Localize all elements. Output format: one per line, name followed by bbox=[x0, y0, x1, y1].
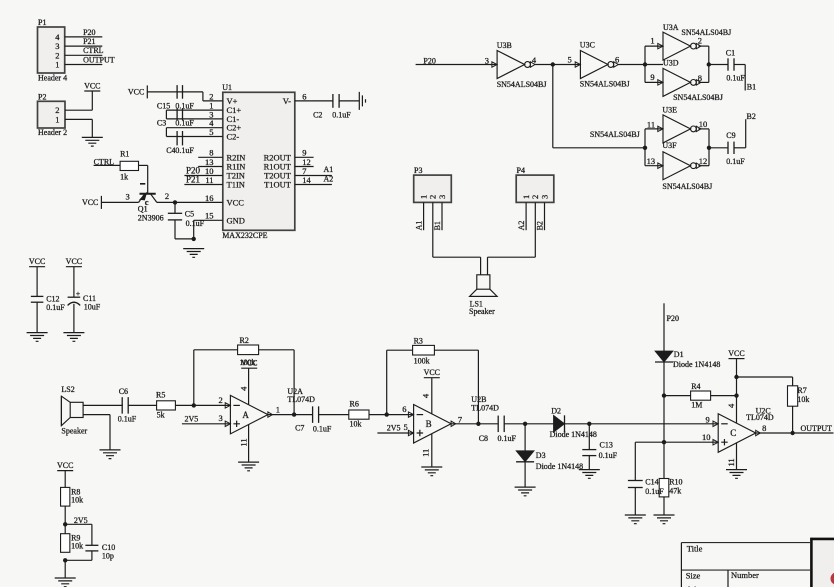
svg-text:6: 6 bbox=[615, 54, 619, 64]
svg-text:D2: D2 bbox=[551, 407, 561, 416]
svg-text:2V5: 2V5 bbox=[387, 424, 401, 433]
svg-text:0.1uF: 0.1uF bbox=[118, 414, 137, 423]
svg-text:B2: B2 bbox=[747, 112, 756, 121]
svg-text:Header 4: Header 4 bbox=[38, 73, 67, 82]
svg-text:SN54ALS04BJ: SN54ALS04BJ bbox=[673, 93, 723, 102]
svg-text:+: + bbox=[76, 289, 80, 298]
svg-text:11: 11 bbox=[726, 458, 736, 466]
svg-text:2: 2 bbox=[219, 395, 223, 405]
svg-text:0.1uF: 0.1uF bbox=[726, 74, 745, 83]
svg-text:10p: 10p bbox=[102, 552, 114, 561]
svg-text:1: 1 bbox=[276, 404, 280, 414]
svg-text:8: 8 bbox=[698, 73, 702, 83]
svg-text:U3E: U3E bbox=[662, 105, 677, 114]
svg-text:3: 3 bbox=[125, 192, 129, 202]
svg-text:VCC: VCC bbox=[128, 88, 144, 97]
svg-text:B1: B1 bbox=[747, 82, 756, 91]
svg-text:0.1uF: 0.1uF bbox=[726, 157, 745, 166]
svg-text:C1: C1 bbox=[726, 48, 735, 57]
svg-text:B1: B1 bbox=[433, 221, 442, 230]
svg-text:SN54ALS04BJ: SN54ALS04BJ bbox=[590, 130, 640, 139]
svg-text:2: 2 bbox=[165, 191, 169, 201]
svg-text:1k: 1k bbox=[120, 173, 128, 182]
svg-text:C12: C12 bbox=[46, 295, 59, 304]
svg-text:U3D: U3D bbox=[663, 59, 679, 68]
svg-text:0.1uF: 0.1uF bbox=[186, 219, 205, 228]
svg-text:3: 3 bbox=[485, 55, 489, 65]
svg-text:C7: C7 bbox=[295, 424, 304, 433]
svg-text:P20: P20 bbox=[667, 314, 679, 323]
svg-text:5k: 5k bbox=[157, 410, 165, 419]
svg-text:A2: A2 bbox=[517, 221, 526, 231]
svg-text:U1: U1 bbox=[222, 83, 232, 92]
svg-text:P4: P4 bbox=[517, 166, 525, 175]
svg-text:R10: R10 bbox=[669, 477, 682, 486]
svg-text:Header 2: Header 2 bbox=[38, 128, 67, 137]
svg-text:T1IN: T1IN bbox=[227, 180, 245, 190]
svg-text:VCC: VCC bbox=[29, 257, 45, 266]
svg-text:D1: D1 bbox=[674, 350, 684, 359]
svg-text:10k: 10k bbox=[71, 496, 83, 505]
svg-text:7: 7 bbox=[458, 414, 462, 424]
svg-text:3: 3 bbox=[539, 195, 549, 199]
svg-text:SN54ALS04BJ: SN54ALS04BJ bbox=[580, 80, 630, 89]
svg-text:13: 13 bbox=[647, 156, 656, 166]
svg-text:0.1uF: 0.1uF bbox=[46, 303, 65, 312]
svg-text:C14: C14 bbox=[645, 478, 658, 487]
svg-text:15: 15 bbox=[205, 211, 214, 221]
svg-text:VCC: VCC bbox=[227, 197, 245, 207]
svg-text:9: 9 bbox=[706, 414, 710, 424]
svg-text:5: 5 bbox=[568, 55, 572, 65]
svg-text:U3F: U3F bbox=[662, 141, 677, 150]
svg-text:OUTPUT: OUTPUT bbox=[83, 55, 115, 64]
svg-text:0.1uF: 0.1uF bbox=[313, 424, 332, 433]
svg-text:VCC: VCC bbox=[241, 359, 257, 368]
svg-text:U3A: U3A bbox=[663, 23, 679, 32]
svg-text:10k: 10k bbox=[350, 419, 362, 428]
svg-text:P2: P2 bbox=[38, 92, 46, 101]
svg-text:3: 3 bbox=[219, 413, 223, 423]
svg-text:8: 8 bbox=[762, 423, 766, 433]
svg-text:B2: B2 bbox=[536, 221, 545, 230]
svg-text:2V5: 2V5 bbox=[74, 516, 88, 525]
svg-text:C11: C11 bbox=[83, 294, 96, 303]
svg-text:11: 11 bbox=[205, 175, 213, 185]
svg-text:P20: P20 bbox=[83, 28, 95, 37]
svg-text:C8: C8 bbox=[479, 434, 488, 443]
svg-text:OUTPUT: OUTPUT bbox=[801, 424, 833, 433]
svg-text:0.1uF: 0.1uF bbox=[645, 487, 664, 496]
svg-text:0.1uF: 0.1uF bbox=[498, 434, 517, 443]
svg-text:C3: C3 bbox=[157, 119, 166, 128]
svg-text:B: B bbox=[426, 419, 432, 429]
svg-text:3: 3 bbox=[437, 195, 447, 199]
svg-text:1: 1 bbox=[55, 114, 59, 124]
svg-text:C13: C13 bbox=[600, 440, 613, 449]
svg-text:CTRL: CTRL bbox=[83, 46, 104, 55]
svg-text:10k: 10k bbox=[71, 542, 83, 551]
svg-text:SN54ALS04BJ: SN54ALS04BJ bbox=[662, 182, 712, 191]
svg-text:C9: C9 bbox=[726, 131, 735, 140]
svg-text:4: 4 bbox=[532, 55, 537, 65]
svg-text:Speaker: Speaker bbox=[61, 427, 87, 436]
svg-text:VCC: VCC bbox=[424, 368, 440, 377]
svg-text:0.1uF: 0.1uF bbox=[175, 119, 194, 128]
svg-text:R6: R6 bbox=[350, 400, 359, 409]
svg-text:2V5: 2V5 bbox=[185, 414, 199, 423]
svg-text:SN54ALS04BJ: SN54ALS04BJ bbox=[681, 28, 731, 37]
svg-text:Speaker: Speaker bbox=[469, 307, 495, 316]
svg-text:10k: 10k bbox=[797, 395, 809, 404]
svg-text:D3: D3 bbox=[536, 451, 546, 460]
svg-text:9: 9 bbox=[650, 72, 654, 82]
svg-text:VCC: VCC bbox=[82, 198, 98, 207]
svg-text:5: 5 bbox=[209, 127, 213, 137]
svg-text:1: 1 bbox=[650, 36, 654, 46]
svg-text:11: 11 bbox=[238, 438, 248, 446]
svg-text:1: 1 bbox=[55, 60, 59, 70]
svg-text:0.1uF: 0.1uF bbox=[175, 146, 194, 155]
svg-text:0.1uF: 0.1uF bbox=[332, 111, 351, 120]
svg-text:R1: R1 bbox=[120, 150, 129, 159]
svg-text:T1OUT: T1OUT bbox=[264, 180, 292, 190]
svg-text:A2: A2 bbox=[324, 174, 334, 183]
svg-text:A: A bbox=[242, 410, 249, 420]
svg-text:0.1uF: 0.1uF bbox=[599, 451, 618, 460]
svg-text:11: 11 bbox=[647, 119, 655, 129]
svg-text:6: 6 bbox=[302, 91, 306, 101]
svg-text:10uF: 10uF bbox=[84, 303, 101, 312]
svg-text:C2: C2 bbox=[313, 111, 322, 120]
svg-text:P1: P1 bbox=[38, 18, 46, 27]
svg-text:Q1: Q1 bbox=[138, 205, 148, 214]
svg-text:GND: GND bbox=[227, 215, 245, 225]
svg-text:10: 10 bbox=[702, 432, 711, 442]
svg-text:C: C bbox=[730, 428, 736, 438]
svg-text:5: 5 bbox=[404, 422, 408, 432]
svg-text:VCC: VCC bbox=[57, 461, 73, 470]
svg-text:R5: R5 bbox=[156, 390, 165, 399]
svg-text:16: 16 bbox=[205, 193, 214, 203]
svg-text:C4: C4 bbox=[166, 146, 175, 155]
svg-text:10: 10 bbox=[699, 119, 708, 129]
svg-text:Title: Title bbox=[687, 544, 703, 554]
svg-text:6: 6 bbox=[402, 404, 406, 414]
svg-text:C2-: C2- bbox=[227, 132, 240, 142]
svg-text:C15: C15 bbox=[157, 101, 170, 110]
svg-text:11: 11 bbox=[421, 449, 431, 457]
svg-text:TL074D: TL074D bbox=[471, 404, 499, 413]
svg-text:Diode 1N4148: Diode 1N4148 bbox=[673, 360, 720, 369]
svg-text:A1: A1 bbox=[415, 221, 424, 231]
svg-text:12: 12 bbox=[699, 156, 708, 166]
svg-text:14: 14 bbox=[302, 175, 311, 185]
svg-text:1M: 1M bbox=[691, 400, 702, 409]
svg-text:100k: 100k bbox=[414, 357, 430, 366]
svg-text:R4: R4 bbox=[691, 382, 700, 391]
svg-text:TL074D: TL074D bbox=[287, 395, 315, 404]
svg-text:P21: P21 bbox=[186, 175, 200, 185]
svg-text:C5: C5 bbox=[185, 210, 194, 219]
svg-text:U3C: U3C bbox=[580, 41, 595, 50]
svg-text:V-: V- bbox=[283, 96, 291, 106]
svg-text:2: 2 bbox=[698, 35, 702, 45]
svg-text:C6: C6 bbox=[119, 387, 128, 396]
svg-text:TL074D: TL074D bbox=[746, 413, 774, 422]
svg-text:R7: R7 bbox=[797, 386, 806, 395]
svg-text:P21: P21 bbox=[83, 37, 95, 46]
svg-text:SN54ALS04BJ: SN54ALS04BJ bbox=[497, 80, 547, 89]
svg-text:Diode 1N4148: Diode 1N4148 bbox=[536, 462, 583, 471]
svg-text:A1: A1 bbox=[324, 165, 334, 174]
svg-text:VCC: VCC bbox=[66, 257, 82, 266]
svg-text:P3: P3 bbox=[414, 166, 422, 175]
svg-text:Size: Size bbox=[686, 571, 701, 581]
svg-text:LS2: LS2 bbox=[61, 385, 74, 394]
svg-text:2N3906: 2N3906 bbox=[138, 214, 164, 223]
svg-text:VCC: VCC bbox=[84, 81, 100, 90]
svg-text:U3B: U3B bbox=[497, 41, 512, 50]
svg-text:47k: 47k bbox=[669, 487, 681, 496]
svg-text:R3: R3 bbox=[414, 336, 423, 345]
svg-text:MAX232CPE: MAX232CPE bbox=[222, 231, 267, 240]
svg-text:Number: Number bbox=[731, 570, 759, 580]
svg-text:0.1uF: 0.1uF bbox=[175, 101, 194, 110]
svg-text:R2: R2 bbox=[240, 336, 249, 345]
svg-text:VCC: VCC bbox=[728, 349, 744, 358]
